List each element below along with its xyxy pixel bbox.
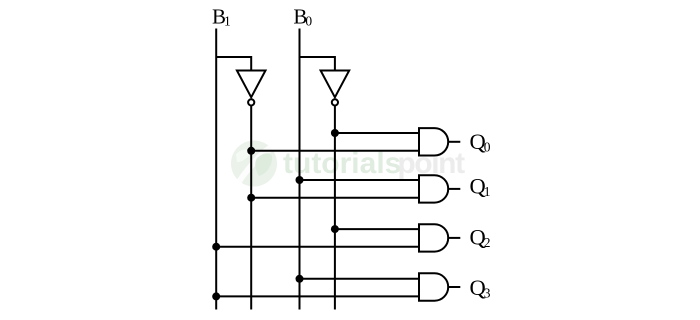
svg-text:B0: B0 <box>293 4 312 28</box>
svg-text:Q2: Q2 <box>470 225 491 251</box>
wire B0' vertical <box>334 106 336 310</box>
wire gate4 bottom input <box>216 295 419 297</box>
wire B1' vertical <box>250 106 252 310</box>
wire gate3 top input <box>335 228 419 230</box>
wire B1 branch to inverter <box>216 57 251 71</box>
wire G1 output <box>448 141 460 143</box>
wire gate4 top input <box>300 278 420 280</box>
node junction B1'/g1 <box>247 147 255 155</box>
AND gate G1 <box>419 128 448 155</box>
wire B0 branch to inverter <box>300 57 335 71</box>
svg-text:B1: B1 <box>212 4 231 28</box>
wire G2 output <box>448 188 460 190</box>
inverter U1 (B1 not) <box>237 71 266 98</box>
node junction B0'/g1 <box>331 129 339 137</box>
watermark logo circle <box>231 141 277 187</box>
wire B1 vertical <box>215 29 217 310</box>
wire gate1 bottom input <box>251 150 419 152</box>
node junction B1/g3 <box>212 243 220 251</box>
wire G3 output <box>448 237 460 239</box>
svg-text:Q1: Q1 <box>470 174 491 200</box>
node junction B1/g4 <box>212 292 220 300</box>
svg-text:Q0: Q0 <box>470 129 491 155</box>
AND gate G2 <box>419 175 448 202</box>
wire gate1 top input <box>335 132 419 134</box>
node junction B1'/g2 <box>247 194 255 202</box>
inverter U2 (B0 not) <box>321 71 350 98</box>
node junction B0'/g3 <box>331 225 339 233</box>
AND gate G4 <box>419 273 448 300</box>
wire gate3 bottom input <box>216 246 419 248</box>
node junction B0/g2 <box>296 176 304 184</box>
wire gate2 top input <box>300 179 420 181</box>
node junction B0/g4 <box>296 275 304 283</box>
svg-text:Q3: Q3 <box>470 275 491 301</box>
wire gate2 bottom input <box>251 197 419 199</box>
wire B0 vertical <box>299 29 301 310</box>
AND gate G3 <box>419 224 448 251</box>
wire G4 output <box>448 286 460 288</box>
